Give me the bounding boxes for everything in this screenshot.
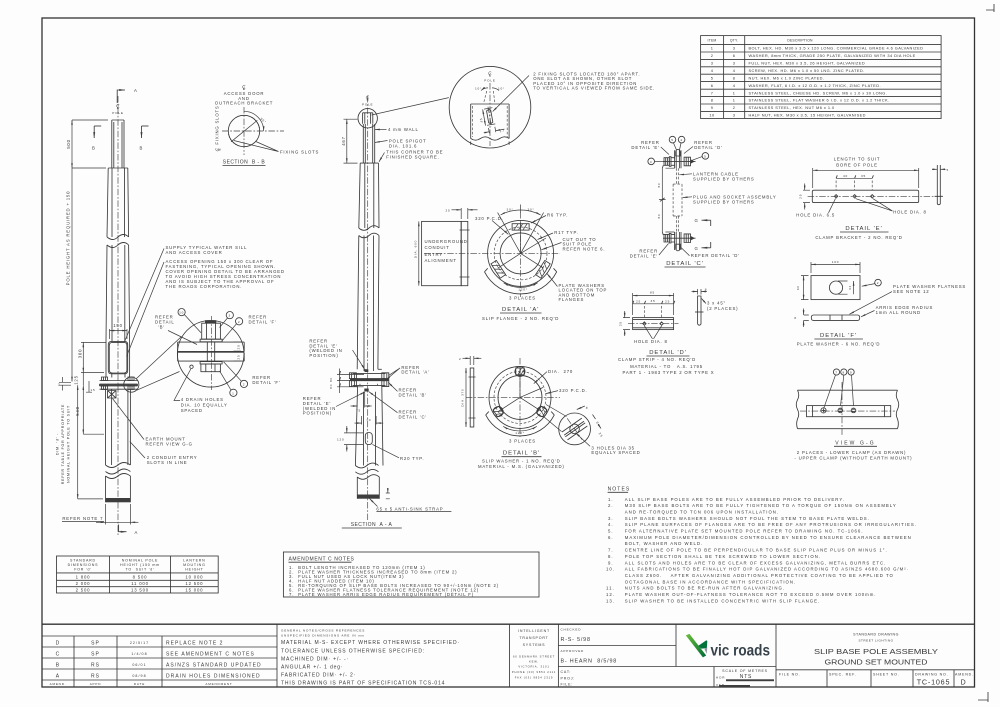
svg-text:300: 300 bbox=[78, 349, 83, 359]
svg-text:FINISHED SQUARE.: FINISHED SQUARE. bbox=[386, 154, 439, 159]
intelligent transport systems panel bbox=[510, 624, 559, 687]
dimension 2 slip gap bbox=[59, 382, 71, 385]
80 80 dims bbox=[661, 168, 663, 232]
outer circle bbox=[488, 220, 554, 286]
svg-text:R-S- 5/98: R-S- 5/98 bbox=[561, 637, 591, 643]
svg-text:HEIGHT: HEIGHT bbox=[185, 568, 203, 572]
svg-text:80: 80 bbox=[657, 213, 661, 218]
svg-text:PROJ:: PROJ: bbox=[561, 677, 576, 681]
right step at joint bbox=[378, 368, 382, 370]
mid pole section bbox=[106, 245, 130, 341]
svg-text:DETAIL 'C': DETAIL 'C' bbox=[399, 415, 428, 420]
svg-text:SUPPLIED BY OTHERS: SUPPLIED BY OTHERS bbox=[693, 176, 755, 181]
svg-text:34: 34 bbox=[848, 285, 852, 290]
bottom arc bbox=[486, 415, 555, 436]
svg-text:POLE TOP SECTION SHALL BE TEK: POLE TOP SECTION SHALL BE TEK SCREWED TO… bbox=[625, 554, 821, 559]
svg-text:FOR ALTERNATIVE PLATE SET MOUN: FOR ALTERNATIVE PLATE SET MOUNTED POLE R… bbox=[625, 529, 864, 534]
svg-text:9: 9 bbox=[850, 371, 853, 375]
svg-text:UNDERGROUND: UNDERGROUND bbox=[425, 239, 468, 244]
balloon 3 bbox=[226, 312, 233, 319]
svg-text:NUTS AND BOLTS TO BE RE-RUN AF: NUTS AND BOLTS TO BE RE-RUN AFTER GALVAN… bbox=[625, 586, 785, 591]
svg-text:7: 7 bbox=[711, 90, 714, 95]
svg-text:30°: 30° bbox=[506, 207, 513, 211]
svg-text:MAXIMUM POLE DIAMETER/DIMENSIO: MAXIMUM POLE DIAMETER/DIMENSION CONTROLL… bbox=[625, 535, 912, 540]
bolt hole group top bbox=[515, 366, 525, 376]
svg-text:10.: 10. bbox=[606, 567, 615, 572]
holes bbox=[643, 322, 664, 325]
svg-text:AND ACCESS COVER: AND ACCESS COVER bbox=[166, 250, 223, 255]
svg-text:ANGULAR +/- 1 deg·: ANGULAR +/- 1 deg· bbox=[281, 664, 343, 670]
leader earth mount bbox=[113, 399, 145, 440]
fixing slot rotated bbox=[477, 105, 505, 137]
pole surface patch bbox=[798, 390, 898, 429]
washer over nut bbox=[200, 362, 222, 364]
30 30 angle dims bbox=[498, 213, 544, 254]
svg-text:SCREW, HEX. HD. M6 x 1.0 x 50: SCREW, HEX. HD. M6 x 1.0 x 50 LNG. ZINC … bbox=[749, 68, 865, 73]
dims 25 35 25 bbox=[633, 303, 674, 305]
svg-text:D: D bbox=[56, 641, 61, 647]
spokes bbox=[498, 368, 543, 412]
svg-text:CLAMP BRACKET - 2 NO. REQ'D: CLAMP BRACKET - 2 NO. REQ'D bbox=[815, 235, 902, 240]
pole tube in detail bbox=[471, 104, 509, 139]
svg-text:25: 25 bbox=[665, 299, 670, 303]
svg-text:B- HEARN 8/5/98: B- HEARN 8/5/98 bbox=[561, 659, 618, 665]
svg-text:A: A bbox=[56, 674, 60, 680]
dimension 500 bbox=[72, 120, 108, 168]
svg-text:ALL FABRICATIONS TO BE FINALLY: ALL FABRICATIONS TO BE FINALLY HOT DIP G… bbox=[625, 567, 909, 572]
svg-text:8: 8 bbox=[711, 98, 714, 103]
svg-text:STAINLESS STEEL, HEX. NUT M6 x: STAINLESS STEEL, HEX. NUT M6 x 1.0 bbox=[749, 105, 835, 110]
svg-text:TO VERTICAL AS VIEWED FROM SAM: TO VERTICAL AS VIEWED FROM SAME SIDE. bbox=[533, 86, 655, 91]
svg-text:HALF NUT, HEX. M30 x 3.5, 15 H: HALF NUT, HEX. M30 x 3.5, 15 HEIGHT, GAL… bbox=[749, 113, 866, 118]
access door label bbox=[243, 85, 246, 89]
dim 25 height bbox=[623, 318, 630, 330]
svg-text:QTY.: QTY. bbox=[730, 38, 738, 42]
svg-text:1: 1 bbox=[733, 90, 736, 95]
leader to enlarged circle bbox=[372, 98, 449, 115]
svg-text:65 x 5 ANTI-SINK STRAP: 65 x 5 ANTI-SINK STRAP bbox=[376, 506, 443, 511]
svg-text:SEE NOTE 12: SEE NOTE 12 bbox=[893, 289, 930, 294]
dia 600 dim bbox=[418, 221, 420, 285]
centreline symbol POLE top bbox=[117, 104, 120, 108]
svg-text:UNSPECIFIED DIMENSIONS ARE IN: UNSPECIFIED DIMENSIONS ARE IN mm bbox=[281, 633, 365, 637]
pole centerline bbox=[367, 96, 369, 520]
svg-text:FILE NO.: FILE NO. bbox=[779, 673, 800, 677]
dimension 467 bbox=[344, 119, 358, 163]
svg-text:BOLT, WASHER AND WELD.: BOLT, WASHER AND WELD. bbox=[625, 541, 703, 546]
right bolt stack bbox=[128, 377, 134, 389]
svg-text:AMENDMENT C NOTES: AMENDMENT C NOTES bbox=[289, 557, 355, 563]
svg-text:SP: SP bbox=[91, 652, 100, 658]
label pole spigot bbox=[375, 141, 388, 143]
label plug and socket bbox=[683, 196, 692, 199]
svg-text:G: G bbox=[695, 218, 699, 223]
svg-text:DETAIL 'E': DETAIL 'E' bbox=[845, 226, 882, 232]
svg-text:ALL SLIP BASE POLES ARE TO BE: ALL SLIP BASE POLES ARE TO BE FULLY ASSE… bbox=[625, 497, 845, 502]
dimension 150 bbox=[110, 329, 128, 339]
lower clamp assembly bbox=[663, 232, 696, 251]
svg-text:SLIP WASHER TO BE INSTALLED CO: SLIP WASHER TO BE INSTALLED CONCENTRIC W… bbox=[625, 598, 820, 603]
conduit entry slot bbox=[365, 433, 372, 445]
balloon 2 upper bbox=[236, 318, 243, 325]
label 3 holes bbox=[576, 433, 591, 447]
svg-text:8: 8 bbox=[794, 316, 797, 320]
svg-text:SP: SP bbox=[91, 641, 100, 647]
svg-text:80: 80 bbox=[329, 384, 333, 389]
label corner finished square bbox=[379, 153, 385, 162]
dimension 120 bbox=[344, 433, 363, 445]
120 deg dim bbox=[503, 426, 537, 431]
svg-text:AMEND.: AMEND. bbox=[50, 682, 67, 686]
svg-text:1 800: 1 800 bbox=[76, 575, 91, 580]
nut bbox=[201, 364, 221, 372]
svg-text:10: 10 bbox=[709, 113, 715, 118]
pole break bbox=[107, 235, 129, 248]
svg-text:REFER NOTE 6.: REFER NOTE 6. bbox=[563, 246, 606, 251]
section arrow A bottom bbox=[119, 525, 127, 532]
dim 85 bbox=[633, 293, 674, 315]
svg-text:6: 6 bbox=[711, 83, 714, 88]
svg-text:9: 9 bbox=[711, 105, 714, 110]
detail C lantern cable clamps bbox=[630, 136, 777, 267]
svg-text:DIM. 'd' -: DIM. 'd' - bbox=[56, 433, 60, 455]
svg-text:DETAIL 'E': DETAIL 'E' bbox=[631, 145, 659, 150]
svg-text:WASHER, 8mm THICK, GRADE 250 P: WASHER, 8mm THICK, GRADE 250 PLATE, GALV… bbox=[749, 53, 916, 58]
top clamp tab bbox=[512, 224, 529, 230]
svg-text:POSITION): POSITION) bbox=[303, 411, 332, 416]
svg-text:POLE HEIGHT AS REQUIRED + 150: POLE HEIGHT AS REQUIRED + 150 bbox=[66, 191, 71, 286]
svg-text:THE ROADS CORPORATION.: THE ROADS CORPORATION. bbox=[166, 284, 243, 289]
svg-text:3.: 3. bbox=[608, 516, 614, 521]
svg-text:2.: 2. bbox=[608, 503, 614, 508]
drain holes note bbox=[174, 369, 191, 401]
svg-text:DIA. 600: DIA. 600 bbox=[414, 240, 418, 258]
svg-text:150: 150 bbox=[113, 323, 123, 328]
svg-text:11 000: 11 000 bbox=[131, 581, 149, 586]
svg-text:R6 TYP.: R6 TYP. bbox=[547, 213, 568, 218]
svg-text:2: 2 bbox=[238, 320, 241, 324]
svg-text:120: 120 bbox=[337, 438, 345, 442]
svg-text:2 500: 2 500 bbox=[76, 588, 91, 593]
registration mark bottom-right bbox=[978, 692, 988, 702]
svg-text:DIA. 370: DIA. 370 bbox=[461, 388, 465, 406]
svg-text:SECTION B - B: SECTION B - B bbox=[223, 160, 266, 166]
detail circle callout ring bbox=[124, 377, 139, 392]
svg-text:DETAIL 'D': DETAIL 'D' bbox=[694, 145, 723, 150]
svg-text:NUT, HEX. M6 x 1.0 ZINC PLATED: NUT, HEX. M6 x 1.0 ZINC PLATED. bbox=[749, 75, 825, 80]
notes list bbox=[606, 487, 917, 604]
dim 100 bbox=[811, 262, 860, 273]
pole centerline bbox=[117, 96, 119, 535]
svg-text:3 x 45°: 3 x 45° bbox=[707, 301, 726, 306]
svg-text:25: 25 bbox=[636, 299, 641, 303]
dimension 15 bbox=[86, 381, 92, 392]
svg-text:VIEW G-G: VIEW G-G bbox=[835, 440, 875, 446]
scale of metres cell bbox=[714, 624, 776, 687]
svg-text:VICTORIA, 3101: VICTORIA, 3101 bbox=[518, 665, 549, 669]
svg-text:SECTION A - A: SECTION A - A bbox=[351, 522, 393, 528]
svg-text:3: 3 bbox=[733, 61, 736, 66]
registration mark top-right bbox=[986, 4, 994, 12]
svg-text:08/98: 08/98 bbox=[132, 674, 146, 678]
svg-text:5: 5 bbox=[704, 155, 707, 159]
svg-text:1/4/08: 1/4/08 bbox=[131, 652, 147, 656]
crosshair centerlines bbox=[424, 252, 560, 254]
svg-text:4: 4 bbox=[650, 160, 653, 164]
bolt shank through plates bbox=[207, 342, 214, 362]
svg-text:8 500: 8 500 bbox=[133, 575, 148, 580]
detail B slip washer bbox=[459, 356, 641, 469]
clamp strip front bbox=[807, 406, 891, 417]
svg-text:PLATE WASHER - 6 NO. REQ'D: PLATE WASHER - 6 NO. REQ'D bbox=[797, 342, 880, 347]
svg-text:SLIP FLANGE - 2 NO. REQ'D: SLIP FLANGE - 2 NO. REQ'D bbox=[482, 316, 559, 321]
label dia 270 bbox=[534, 372, 547, 384]
bore circle bbox=[500, 233, 541, 274]
svg-text:LANTERN: LANTERN bbox=[183, 559, 205, 563]
svg-text:PART 1 - 1983 TYPE 2 OR TYPE X: PART 1 - 1983 TYPE 2 OR TYPE X bbox=[623, 370, 715, 375]
svg-text:10 000: 10 000 bbox=[185, 575, 203, 580]
svg-text:REFER TABLE FOR APPROPRIATE: REFER TABLE FOR APPROPRIATE bbox=[61, 404, 65, 485]
anti-sink strap label bbox=[370, 499, 378, 507]
svg-text:11.: 11. bbox=[606, 586, 615, 591]
svg-text:85: 85 bbox=[650, 291, 655, 295]
svg-text:CONDUIT: CONDUIT bbox=[425, 245, 450, 250]
svg-text:25: 25 bbox=[619, 321, 623, 326]
leader from text to slot bbox=[493, 76, 529, 112]
svg-text:APPD: APPD bbox=[90, 682, 102, 686]
svg-text:120°: 120° bbox=[518, 287, 528, 291]
svg-text:2: 2 bbox=[58, 383, 61, 387]
svg-text:3: 3 bbox=[229, 314, 232, 318]
svg-text:5: 5 bbox=[671, 138, 674, 142]
detail A slip flange bbox=[414, 205, 608, 321]
svg-text:100: 100 bbox=[832, 260, 840, 264]
leader conduit slots bbox=[130, 442, 145, 459]
dimension 540 bbox=[82, 385, 84, 434]
lower pole section bbox=[106, 389, 131, 465]
earth mount lug bbox=[108, 391, 117, 399]
bracket plan bbox=[812, 190, 918, 202]
svg-text:B: B bbox=[56, 663, 60, 669]
dim 8 side bbox=[698, 289, 701, 295]
label R17 bbox=[538, 233, 554, 240]
svg-text:AND RE-TORQUED TO TCN 006 UPON: AND RE-TORQUED TO TCN 006 UPON INSTALLAT… bbox=[625, 510, 779, 515]
dim 5 bbox=[932, 168, 937, 170]
balloon 4 top bbox=[678, 136, 685, 143]
svg-text:vic roads: vic roads bbox=[711, 642, 771, 659]
lower left clamp tab bbox=[491, 260, 506, 278]
balloon 10 bbox=[178, 309, 185, 316]
break lower bbox=[355, 463, 378, 474]
svg-text:9.: 9. bbox=[608, 560, 614, 565]
balloon 2 bbox=[875, 279, 882, 286]
washer side view bbox=[811, 315, 859, 320]
svg-text:SPEC. REF.: SPEC. REF. bbox=[829, 673, 857, 677]
pole middle section bbox=[357, 236, 379, 372]
dimension 125 bbox=[82, 373, 84, 385]
fixing slot enlarged detail circle bbox=[449, 66, 655, 148]
svg-text:3 PLACES: 3 PLACES bbox=[509, 439, 536, 444]
detail D clamp strip bbox=[618, 287, 738, 375]
balloon 5 right bbox=[702, 153, 709, 160]
svg-text:G: G bbox=[695, 246, 699, 251]
balloon 5 top bbox=[669, 136, 676, 143]
svg-text:TRANSPORT: TRANSPORT bbox=[519, 636, 548, 640]
hole bbox=[829, 281, 842, 294]
svg-text:25: 25 bbox=[237, 354, 241, 359]
balloon 1 bbox=[230, 389, 237, 396]
svg-text:REFER NOTE 7: REFER NOTE 7 bbox=[62, 516, 103, 521]
svg-text:TC-1065: TC-1065 bbox=[917, 678, 951, 687]
svg-text:STREET LIGHTING: STREET LIGHTING bbox=[858, 639, 893, 643]
spigot top ring bbox=[358, 109, 377, 128]
svg-text:DATE: DATE bbox=[134, 682, 145, 686]
svg-text:2 PLACES - LOWER CLAMP (AS DRA: 2 PLACES - LOWER CLAMP (AS DRAWN) bbox=[797, 450, 907, 455]
svg-text:06/01: 06/01 bbox=[132, 663, 146, 667]
lower flange plate bbox=[178, 353, 245, 361]
detail F plate washer bbox=[794, 260, 966, 347]
svg-text:OUTREACH BRACKET: OUTREACH BRACKET bbox=[215, 101, 273, 106]
dimension 75 bbox=[364, 393, 366, 408]
svg-text:4: 4 bbox=[733, 83, 736, 88]
bolt section detail circle bbox=[544, 405, 604, 447]
svg-text:STANDARD: STANDARD bbox=[70, 559, 96, 563]
svg-text:HOR: HOR bbox=[716, 676, 725, 680]
svg-text:30°: 30° bbox=[527, 207, 534, 211]
left pole elevation bbox=[56, 88, 285, 535]
svg-text:1: 1 bbox=[232, 391, 235, 395]
title block strip bbox=[42, 624, 975, 687]
svg-text:125: 125 bbox=[74, 375, 79, 385]
svg-text:8: 8 bbox=[843, 371, 846, 375]
parts list table bbox=[701, 36, 942, 119]
svg-text:C: C bbox=[56, 652, 61, 658]
svg-text:FAX (03) 9854 2319: FAX (03) 9854 2319 bbox=[515, 676, 553, 680]
svg-text:INTELLIGENT: INTELLIGENT bbox=[518, 629, 550, 633]
svg-text:DIA. 10 EQUALLY: DIA. 10 EQUALLY bbox=[181, 402, 228, 407]
svg-text:HOLE DIA. 8: HOLE DIA. 8 bbox=[634, 339, 668, 344]
svg-text:60: 60 bbox=[796, 285, 800, 290]
svg-text:2: 2 bbox=[733, 105, 736, 110]
svg-text:15 000: 15 000 bbox=[185, 588, 203, 593]
svg-text:70: 70 bbox=[366, 418, 371, 422]
svg-text:12.: 12. bbox=[606, 592, 615, 597]
svg-text:5.: 5. bbox=[608, 529, 614, 534]
svg-text:7. PLATE WASHER ARRIS EDGE RA: 7. PLATE WASHER ARRIS EDGE RADIUS REQUIR… bbox=[289, 592, 474, 597]
lower right clamp tab bbox=[536, 260, 551, 278]
break bbox=[359, 226, 379, 238]
svg-text:A: A bbox=[135, 530, 139, 535]
centerline bbox=[841, 382, 843, 435]
revision table bbox=[42, 636, 277, 680]
80 80 dims left of joint bbox=[337, 374, 364, 386]
svg-text:KEW,: KEW, bbox=[529, 660, 539, 664]
svg-text:FIXING SLOTS: FIXING SLOTS bbox=[280, 149, 319, 154]
fixing slot arcs bbox=[252, 117, 260, 128]
svg-text:ENTRY: ENTRY bbox=[425, 252, 444, 257]
svg-text:13.: 13. bbox=[606, 598, 615, 603]
svg-text:R20 TYP.: R20 TYP. bbox=[400, 456, 424, 461]
centreline symbol POLE bbox=[366, 96, 369, 100]
svg-text:25: 25 bbox=[799, 194, 803, 199]
svg-text:35: 35 bbox=[861, 174, 866, 178]
svg-text:2: 2 bbox=[243, 383, 246, 387]
svg-text:DETAIL 'A': DETAIL 'A' bbox=[502, 307, 539, 313]
svg-text:4: 4 bbox=[680, 138, 683, 142]
bolt head bbox=[205, 320, 216, 323]
svg-text:10°: 10° bbox=[475, 87, 482, 91]
vicroads logo bbox=[686, 634, 770, 659]
label 320 PCD bbox=[492, 221, 508, 235]
svg-text:467: 467 bbox=[341, 136, 346, 146]
dimension DIM d bbox=[77, 385, 79, 499]
view G-G earth mount clamp bbox=[794, 369, 912, 461]
left bolt stack bbox=[101, 377, 108, 389]
fixing slots leaders bbox=[234, 141, 279, 152]
svg-text:TO SUIT 'd': TO SUIT 'd' bbox=[125, 568, 154, 572]
svg-text:DETAIL 'F': DETAIL 'F' bbox=[820, 333, 857, 339]
svg-text:DRAWING NO.: DRAWING NO. bbox=[915, 673, 948, 677]
svg-text:DETAIL 'C': DETAIL 'C' bbox=[666, 261, 704, 267]
svg-text:BORE OF POLE: BORE OF POLE bbox=[836, 162, 878, 167]
svg-text:1: 1 bbox=[711, 46, 714, 51]
earth screw bbox=[821, 408, 826, 413]
svg-text:POSITION): POSITION) bbox=[309, 353, 338, 358]
svg-text:DETAIL 'D': DETAIL 'D' bbox=[649, 350, 687, 356]
svg-text:4: 4 bbox=[733, 68, 736, 73]
leader access opening note bbox=[127, 262, 165, 357]
dia 370 dim bbox=[465, 368, 467, 427]
hole dia 6.5 label bbox=[829, 199, 836, 213]
svg-text:6.: 6. bbox=[608, 535, 614, 540]
bolt centerline bbox=[211, 316, 213, 390]
svg-text:SLIP BASE POLE ASSEMBLY: SLIP BASE POLE ASSEMBLY bbox=[814, 647, 938, 656]
label cut out bbox=[541, 243, 561, 250]
dim 34 bbox=[838, 281, 848, 294]
svg-text:4.: 4. bbox=[608, 522, 614, 527]
pole section circle bbox=[228, 115, 259, 146]
middle pole elevation section A-A bbox=[303, 96, 452, 528]
svg-text:320 P.C.D.: 320 P.C.D. bbox=[475, 216, 503, 221]
bolt hole group lower left bbox=[491, 405, 505, 419]
25 thickness dim bbox=[461, 208, 468, 219]
svg-text:DIA. 270: DIA. 270 bbox=[548, 369, 573, 374]
access opening bbox=[109, 342, 127, 373]
svg-text:SLOTS IN LINE: SLOTS IN LINE bbox=[147, 460, 188, 465]
svg-text:35: 35 bbox=[650, 299, 655, 303]
svg-text:8: 8 bbox=[733, 75, 736, 80]
25 25 plate thickness dims bbox=[234, 342, 242, 361]
strip side view bbox=[698, 296, 701, 325]
svg-text:4 mm WALL: 4 mm WALL bbox=[388, 127, 419, 132]
section G arrows bbox=[702, 219, 711, 221]
dim 25 bbox=[803, 190, 810, 202]
dim 8 bbox=[804, 315, 809, 320]
upper flange plate bbox=[178, 342, 245, 351]
section arrows B-B bbox=[94, 125, 101, 127]
svg-text:AMENDMENT: AMENDMENT bbox=[205, 682, 232, 686]
holes bbox=[834, 195, 874, 198]
label plate washers bbox=[547, 274, 558, 287]
svg-text:10°: 10° bbox=[498, 87, 505, 91]
slip base enlarged detail circle bbox=[174, 309, 280, 413]
svg-text:CENTRE LINE OF POLE TO BE PERP: CENTRE LINE OF POLE TO BE PERPENDICULAR … bbox=[625, 548, 888, 553]
svg-text:STAINLESS STEEL, CHEESE HD. SC: STAINLESS STEEL, CHEESE HD. SCREW, M6 x … bbox=[749, 90, 888, 95]
label 4mm wall bbox=[375, 129, 387, 131]
upper pole section bbox=[107, 168, 129, 237]
svg-text:FOR 'd': FOR 'd' bbox=[74, 568, 92, 572]
svg-text:22/5/17: 22/5/17 bbox=[130, 641, 149, 645]
